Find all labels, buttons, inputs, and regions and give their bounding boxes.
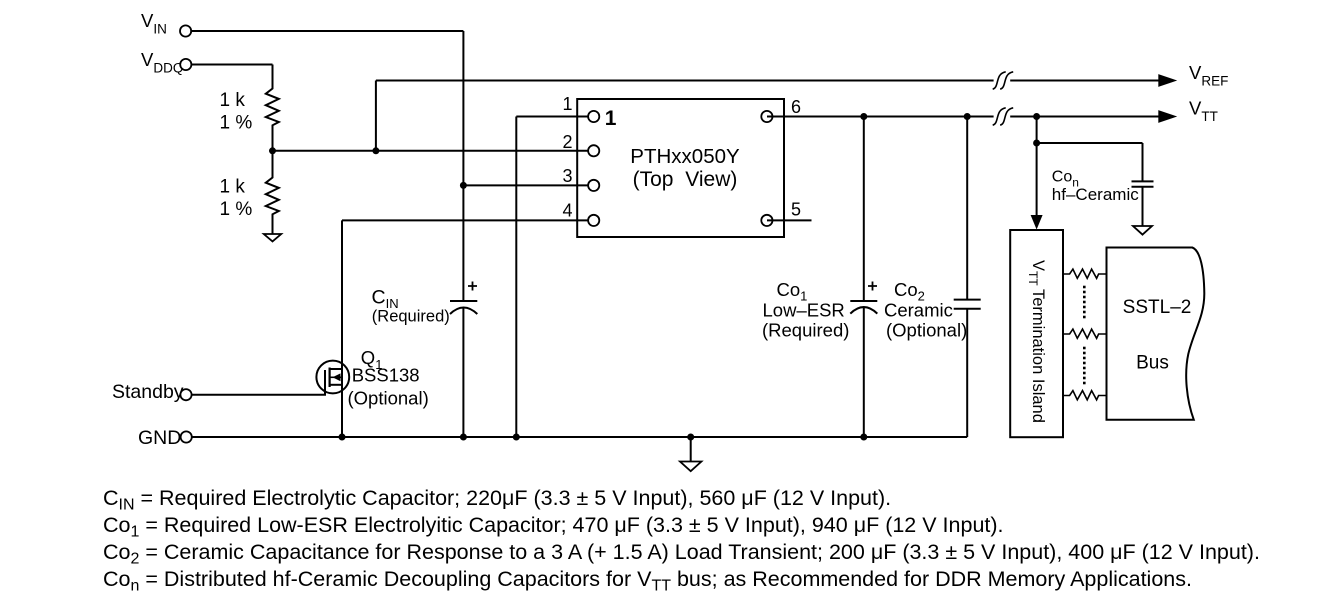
- svg-text:(Required): (Required): [372, 308, 450, 326]
- resistor R2 1k lower: [266, 151, 279, 234]
- capacitor Co1 top plate: [850, 300, 877, 302]
- wire Co2 upper: [966, 117, 968, 300]
- node junction Con tap: [1033, 140, 1040, 147]
- ground stub center: [690, 437, 692, 462]
- transistor Q1 channel bar: [329, 368, 331, 388]
- wire Con horizontal: [1037, 142, 1143, 144]
- node junction Q1-GND: [339, 434, 346, 441]
- dotted ellipsis between Rt1 and Rt2: [1083, 286, 1086, 319]
- capacitor Con top plate: [1132, 180, 1154, 182]
- resistor R1 1k upper: [266, 65, 279, 151]
- pin 4 circle: [588, 215, 599, 226]
- wire VREF riser vertical: [375, 81, 377, 151]
- ground symbol center: [680, 462, 701, 472]
- svg-text:Con = Distributed hf-Ceramic D: Con = Distributed hf-Ceramic Decoupling …: [103, 567, 1192, 595]
- svg-text:1: 1: [605, 107, 617, 130]
- wire pin4 horizontal: [342, 219, 593, 221]
- wire VTT right of break: [1010, 116, 1160, 118]
- transistor Q1 source stub: [330, 384, 342, 386]
- transistor Q1 drain stub: [330, 368, 342, 370]
- wire GND bus: [192, 436, 967, 438]
- termination resistor Rt2: [1062, 329, 1106, 338]
- svg-text:Bus: Bus: [1136, 352, 1169, 373]
- SSTL-2 bus block: [1107, 248, 1205, 420]
- svg-text:PTHxx050Y: PTHxx050Y: [630, 145, 740, 168]
- terminal VDDQ: [180, 59, 191, 70]
- wire Con vertical lower: [1142, 187, 1144, 226]
- capacitor Co1 bottom curved plate: [850, 307, 877, 314]
- wire pin3 horizontal: [463, 184, 593, 186]
- arrowhead VREF: [1158, 74, 1177, 87]
- node junction VIN-pin3: [460, 182, 467, 189]
- transistor Q1 circle: [316, 361, 349, 394]
- svg-text:GND: GND: [138, 427, 181, 449]
- wire island riser: [1036, 117, 1038, 144]
- wire Co1 upper: [863, 117, 865, 302]
- node junction Co1-GND: [860, 434, 867, 441]
- wire VDDQ horizontal: [192, 64, 273, 66]
- svg-text:(Top View): (Top View): [633, 168, 738, 191]
- pin 5 circle: [761, 215, 772, 226]
- capacitor Co2 bottom plate: [954, 308, 981, 310]
- svg-text:6: 6: [791, 97, 801, 117]
- svg-text:2: 2: [562, 132, 572, 152]
- svg-text:4: 4: [562, 201, 572, 221]
- svg-text:Co1 = Required Low-ESR Electro: Co1 = Required Low-ESR Electrolyitic Cap…: [103, 513, 1004, 541]
- svg-text:hf–Ceramic: hf–Ceramic: [1052, 185, 1139, 204]
- capacitor Co1 plus sign: [868, 282, 877, 291]
- dotted ellipsis between Rt2 and Rt3: [1083, 347, 1086, 385]
- break symbol VTT line: [993, 108, 1014, 125]
- svg-text:(Optional): (Optional): [886, 320, 967, 341]
- IC U1 PTHxx050Y box: [577, 99, 784, 237]
- svg-text:(Required): (Required): [762, 320, 849, 341]
- svg-text:Co2 = Ceramic Capacitance for: Co2 = Ceramic Capacitance for Response t…: [103, 540, 1260, 568]
- capacitor Co2 top plate: [954, 299, 981, 301]
- wire VIN horizontal: [191, 30, 463, 32]
- wire CIN to GND: [462, 308, 464, 438]
- pin 6 circle: [761, 111, 772, 122]
- svg-text:1 %: 1 %: [220, 113, 253, 134]
- wire Co1 lower: [863, 308, 865, 438]
- wire island riser lower: [1036, 143, 1038, 216]
- node junction VREF riser: [372, 147, 379, 154]
- wire Co2 lower: [966, 309, 968, 437]
- break symbol VREF line: [993, 72, 1014, 89]
- svg-text:5: 5: [791, 199, 801, 219]
- node junction ground-symbol: [687, 434, 694, 441]
- pin 1 circle: [588, 111, 599, 122]
- svg-text:Standby: Standby: [112, 381, 184, 403]
- capacitor CIN plus sign: [468, 282, 477, 291]
- ground under R2: [264, 234, 281, 241]
- wire pin1 vertical down to GND: [515, 117, 517, 438]
- svg-text:SSTL–2: SSTL–2: [1123, 297, 1192, 318]
- termination resistor Rt1: [1062, 269, 1106, 278]
- transistor Q1 body arrow: [333, 373, 341, 381]
- pin 3 circle: [588, 180, 599, 191]
- transistor Q1 body stub: [330, 376, 342, 378]
- wire VIN vertical to CIN: [462, 31, 464, 301]
- node junction Co1 top: [860, 113, 867, 120]
- capacitor Con bottom plate: [1132, 186, 1154, 188]
- wire pin4 vertical through Q1 to GND: [341, 220, 343, 437]
- svg-text:1: 1: [562, 94, 572, 114]
- capacitor CIN top plate: [450, 300, 477, 302]
- wire divider to pin2: [273, 150, 594, 152]
- transistor Q1 gate wire from Standby: [192, 370, 325, 395]
- svg-text:BSS138: BSS138: [352, 365, 420, 386]
- wire VREF horizontal right of break: [1010, 80, 1160, 82]
- terminal Standby: [180, 389, 191, 400]
- node junction CIN-GND: [460, 434, 467, 441]
- wire Con vertical upper: [1142, 143, 1144, 181]
- capacitor CIN bottom curved plate: [450, 308, 477, 315]
- ground symbol Con: [1133, 226, 1152, 235]
- wire VREF horizontal left of break: [376, 80, 994, 82]
- svg-text:CIN = Required Electrolytic Ca: CIN = Required Electrolytic Capacitor; 2…: [103, 486, 891, 514]
- arrowhead into island: [1031, 215, 1043, 230]
- node divider junction: [269, 147, 276, 154]
- wire pin5 stub: [767, 219, 812, 221]
- svg-text:Low–ESR: Low–ESR: [763, 300, 845, 321]
- svg-text:Ceramic: Ceramic: [884, 300, 953, 321]
- terminal VIN: [180, 25, 191, 36]
- wire pin6 to VTT left of break: [767, 116, 994, 118]
- VTT termination island box: [1010, 230, 1063, 437]
- arrowhead VTT: [1158, 110, 1177, 123]
- svg-text:1 k: 1 k: [220, 177, 246, 198]
- node junction Co2 top: [964, 113, 971, 120]
- termination resistor Rt3: [1062, 391, 1106, 400]
- svg-text:1 %: 1 %: [220, 199, 253, 220]
- terminal GND: [181, 431, 192, 442]
- svg-text:1 k: 1 k: [220, 90, 246, 111]
- pin 2 circle: [588, 145, 599, 156]
- svg-text:3: 3: [562, 166, 572, 186]
- node junction pin1-GND: [513, 434, 520, 441]
- wire pin1 horizontal: [516, 116, 593, 118]
- svg-text:(Optional): (Optional): [348, 388, 429, 409]
- node junction island riser top: [1033, 113, 1040, 120]
